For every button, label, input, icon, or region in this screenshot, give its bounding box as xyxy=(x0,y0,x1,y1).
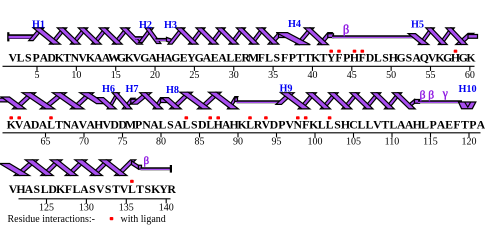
ruler tick 65 xyxy=(41,133,51,148)
coil H2-H3 xyxy=(156,38,169,42)
ligand interaction dot L136 xyxy=(130,180,134,183)
svg-text:VHASLDKFLASVSTVLTSKYR: VHASLDKFLASVSTVLTSKYR xyxy=(9,182,177,196)
ruler tick 115 xyxy=(423,133,438,148)
svg-text:70: 70 xyxy=(79,137,89,148)
helix H3 and H4 (ribbon) xyxy=(167,28,334,45)
svg-text:VLSPADKTNVKAAWGKVGAHAGEYGAEALE: VLSPADKTNVKAAWGKVGAHAGEYGAEALERMFLSFPTTK… xyxy=(9,51,477,65)
svg-text:110: 110 xyxy=(385,137,400,148)
ligand interaction dot V93 xyxy=(264,116,268,119)
ruler tick 140 xyxy=(159,199,174,214)
ligand interaction dot Y42 xyxy=(329,50,333,53)
ruler tick 55 xyxy=(426,66,436,81)
ligand interaction dot H45 xyxy=(353,50,357,53)
svg-text:KVADALTNAVAHVDDMPNALSALSDLHAHK: KVADALTNAVAHVDDMPNALSALSDLHAHKLRVDPVNFKL… xyxy=(7,117,485,131)
svg-text:β: β xyxy=(343,23,349,37)
ruler tick 125 xyxy=(39,199,54,214)
helix H10 start row2 (ribbon) xyxy=(459,102,476,109)
ligand interaction dot F43 xyxy=(337,50,341,53)
svg-text:75: 75 xyxy=(118,137,128,148)
ruler tick 50 xyxy=(386,66,396,81)
helix H9 (ribbon) xyxy=(276,93,420,109)
ruler tick 5 xyxy=(35,66,40,81)
svg-text:H4: H4 xyxy=(288,19,301,30)
ruler tick 20 xyxy=(150,66,160,81)
svg-text:β: β xyxy=(420,89,426,101)
svg-text:95: 95 xyxy=(272,137,282,148)
helix H5 (ribbon) xyxy=(408,28,477,45)
svg-text:85: 85 xyxy=(195,137,205,148)
svg-text:115: 115 xyxy=(423,137,438,148)
svg-text:50: 50 xyxy=(386,70,396,81)
svg-text:120: 120 xyxy=(462,137,477,148)
svg-text:β: β xyxy=(428,89,434,101)
svg-text:125: 125 xyxy=(39,202,54,213)
svg-text:H8: H8 xyxy=(166,85,179,96)
svg-text:135: 135 xyxy=(119,202,134,213)
svg-text:55: 55 xyxy=(426,70,436,81)
ruler line row1 xyxy=(3,65,475,67)
helix H10 continuation row3 (ribbon) xyxy=(0,160,142,176)
svg-text:H10: H10 xyxy=(458,84,476,95)
ligand interaction dot F46 xyxy=(361,50,365,53)
svg-text:β: β xyxy=(143,155,149,167)
svg-text:45: 45 xyxy=(347,70,357,81)
svg-text:80: 80 xyxy=(156,137,166,148)
helix H7 (ribbon) xyxy=(131,93,168,109)
ruler tick 110 xyxy=(385,133,400,148)
ruler line row3 xyxy=(19,198,171,200)
C-terminal coil (res 138-141) xyxy=(141,167,172,171)
ligand interaction dot H58 xyxy=(454,50,458,53)
svg-text:H2: H2 xyxy=(139,20,152,31)
ruler tick 120 xyxy=(462,133,477,148)
svg-text:H1: H1 xyxy=(32,19,45,30)
svg-text:105: 105 xyxy=(346,137,361,148)
ruler tick 35 xyxy=(268,66,278,81)
svg-text:65: 65 xyxy=(41,137,51,148)
helix H6 (ribbon) xyxy=(97,93,137,109)
svg-text:130: 130 xyxy=(79,202,94,213)
svg-text:H6: H6 xyxy=(102,84,115,95)
ligand interaction dot L83 xyxy=(185,116,189,119)
ligand interaction dot legend dot xyxy=(110,217,114,220)
svg-text:100: 100 xyxy=(308,137,323,148)
N-terminus tick xyxy=(7,32,9,41)
ruler tick 105 xyxy=(346,133,361,148)
svg-text:30: 30 xyxy=(229,70,239,81)
ruler tick 90 xyxy=(233,133,243,148)
ruler tick 45 xyxy=(347,66,357,81)
ligand interaction dot H87 xyxy=(216,116,220,119)
ruler tick 135 xyxy=(119,199,134,214)
C-terminus tick xyxy=(170,165,172,173)
ruler tick 85 xyxy=(195,133,205,148)
coil H4-H5 (long loop) xyxy=(332,35,417,39)
ruler tick 30 xyxy=(229,66,239,81)
svg-text:20: 20 xyxy=(150,70,160,81)
svg-text:γ: γ xyxy=(442,88,448,100)
svg-text:60: 60 xyxy=(465,70,475,81)
ligand interaction dot L91 xyxy=(248,116,252,119)
ligand interaction dot L86 xyxy=(208,116,212,119)
helix H8 (ribbon) xyxy=(162,92,239,109)
svg-text:Residue interactions:-: Residue interactions:- xyxy=(8,214,95,225)
ligand interaction dot F98 xyxy=(304,116,308,119)
ruler tick 75 xyxy=(118,133,128,148)
ruler tick 25 xyxy=(189,66,199,81)
svg-text:140: 140 xyxy=(159,202,174,213)
ligand interaction dot L66 xyxy=(49,116,53,119)
svg-text:with ligand: with ligand xyxy=(121,214,166,225)
ruler tick 60 xyxy=(465,66,475,81)
ruler tick 130 xyxy=(79,199,94,214)
svg-text:15: 15 xyxy=(111,70,121,81)
ligand interaction dot N97 xyxy=(296,116,300,119)
helix H5 continuation row2 (ribbon) xyxy=(0,93,106,109)
ligand interaction dot L101 xyxy=(328,116,332,119)
ligand interaction dot V62 xyxy=(17,116,21,119)
coil H9-H10 (turns) xyxy=(418,100,462,104)
coil H8-H9 xyxy=(237,100,283,104)
svg-text:40: 40 xyxy=(307,70,317,81)
svg-text:H5: H5 xyxy=(411,19,424,30)
ruler line row2 xyxy=(3,132,481,134)
svg-text:H9: H9 xyxy=(279,84,292,95)
svg-text:H3: H3 xyxy=(164,20,177,31)
ruler tick 100 xyxy=(308,133,323,148)
helix H2 (ribbon) xyxy=(139,28,161,44)
svg-text:10: 10 xyxy=(71,70,81,81)
ruler tick 95 xyxy=(272,133,282,148)
ruler tick 40 xyxy=(307,66,317,81)
svg-text:35: 35 xyxy=(268,70,278,81)
helix H1 (ribbon) xyxy=(29,28,143,44)
svg-text:5: 5 xyxy=(35,70,40,81)
coil H1-H2 xyxy=(135,36,144,40)
svg-text:90: 90 xyxy=(233,137,243,148)
ruler tick 80 xyxy=(156,133,166,148)
svg-text:H7: H7 xyxy=(125,84,138,95)
ruler tick 10 xyxy=(71,66,81,81)
svg-text:25: 25 xyxy=(189,70,199,81)
ruler tick 15 xyxy=(111,66,121,81)
ruler tick 70 xyxy=(79,133,89,148)
N-terminal coil (res 1-3) xyxy=(9,34,35,39)
ligand interaction dot K61 xyxy=(9,116,13,119)
